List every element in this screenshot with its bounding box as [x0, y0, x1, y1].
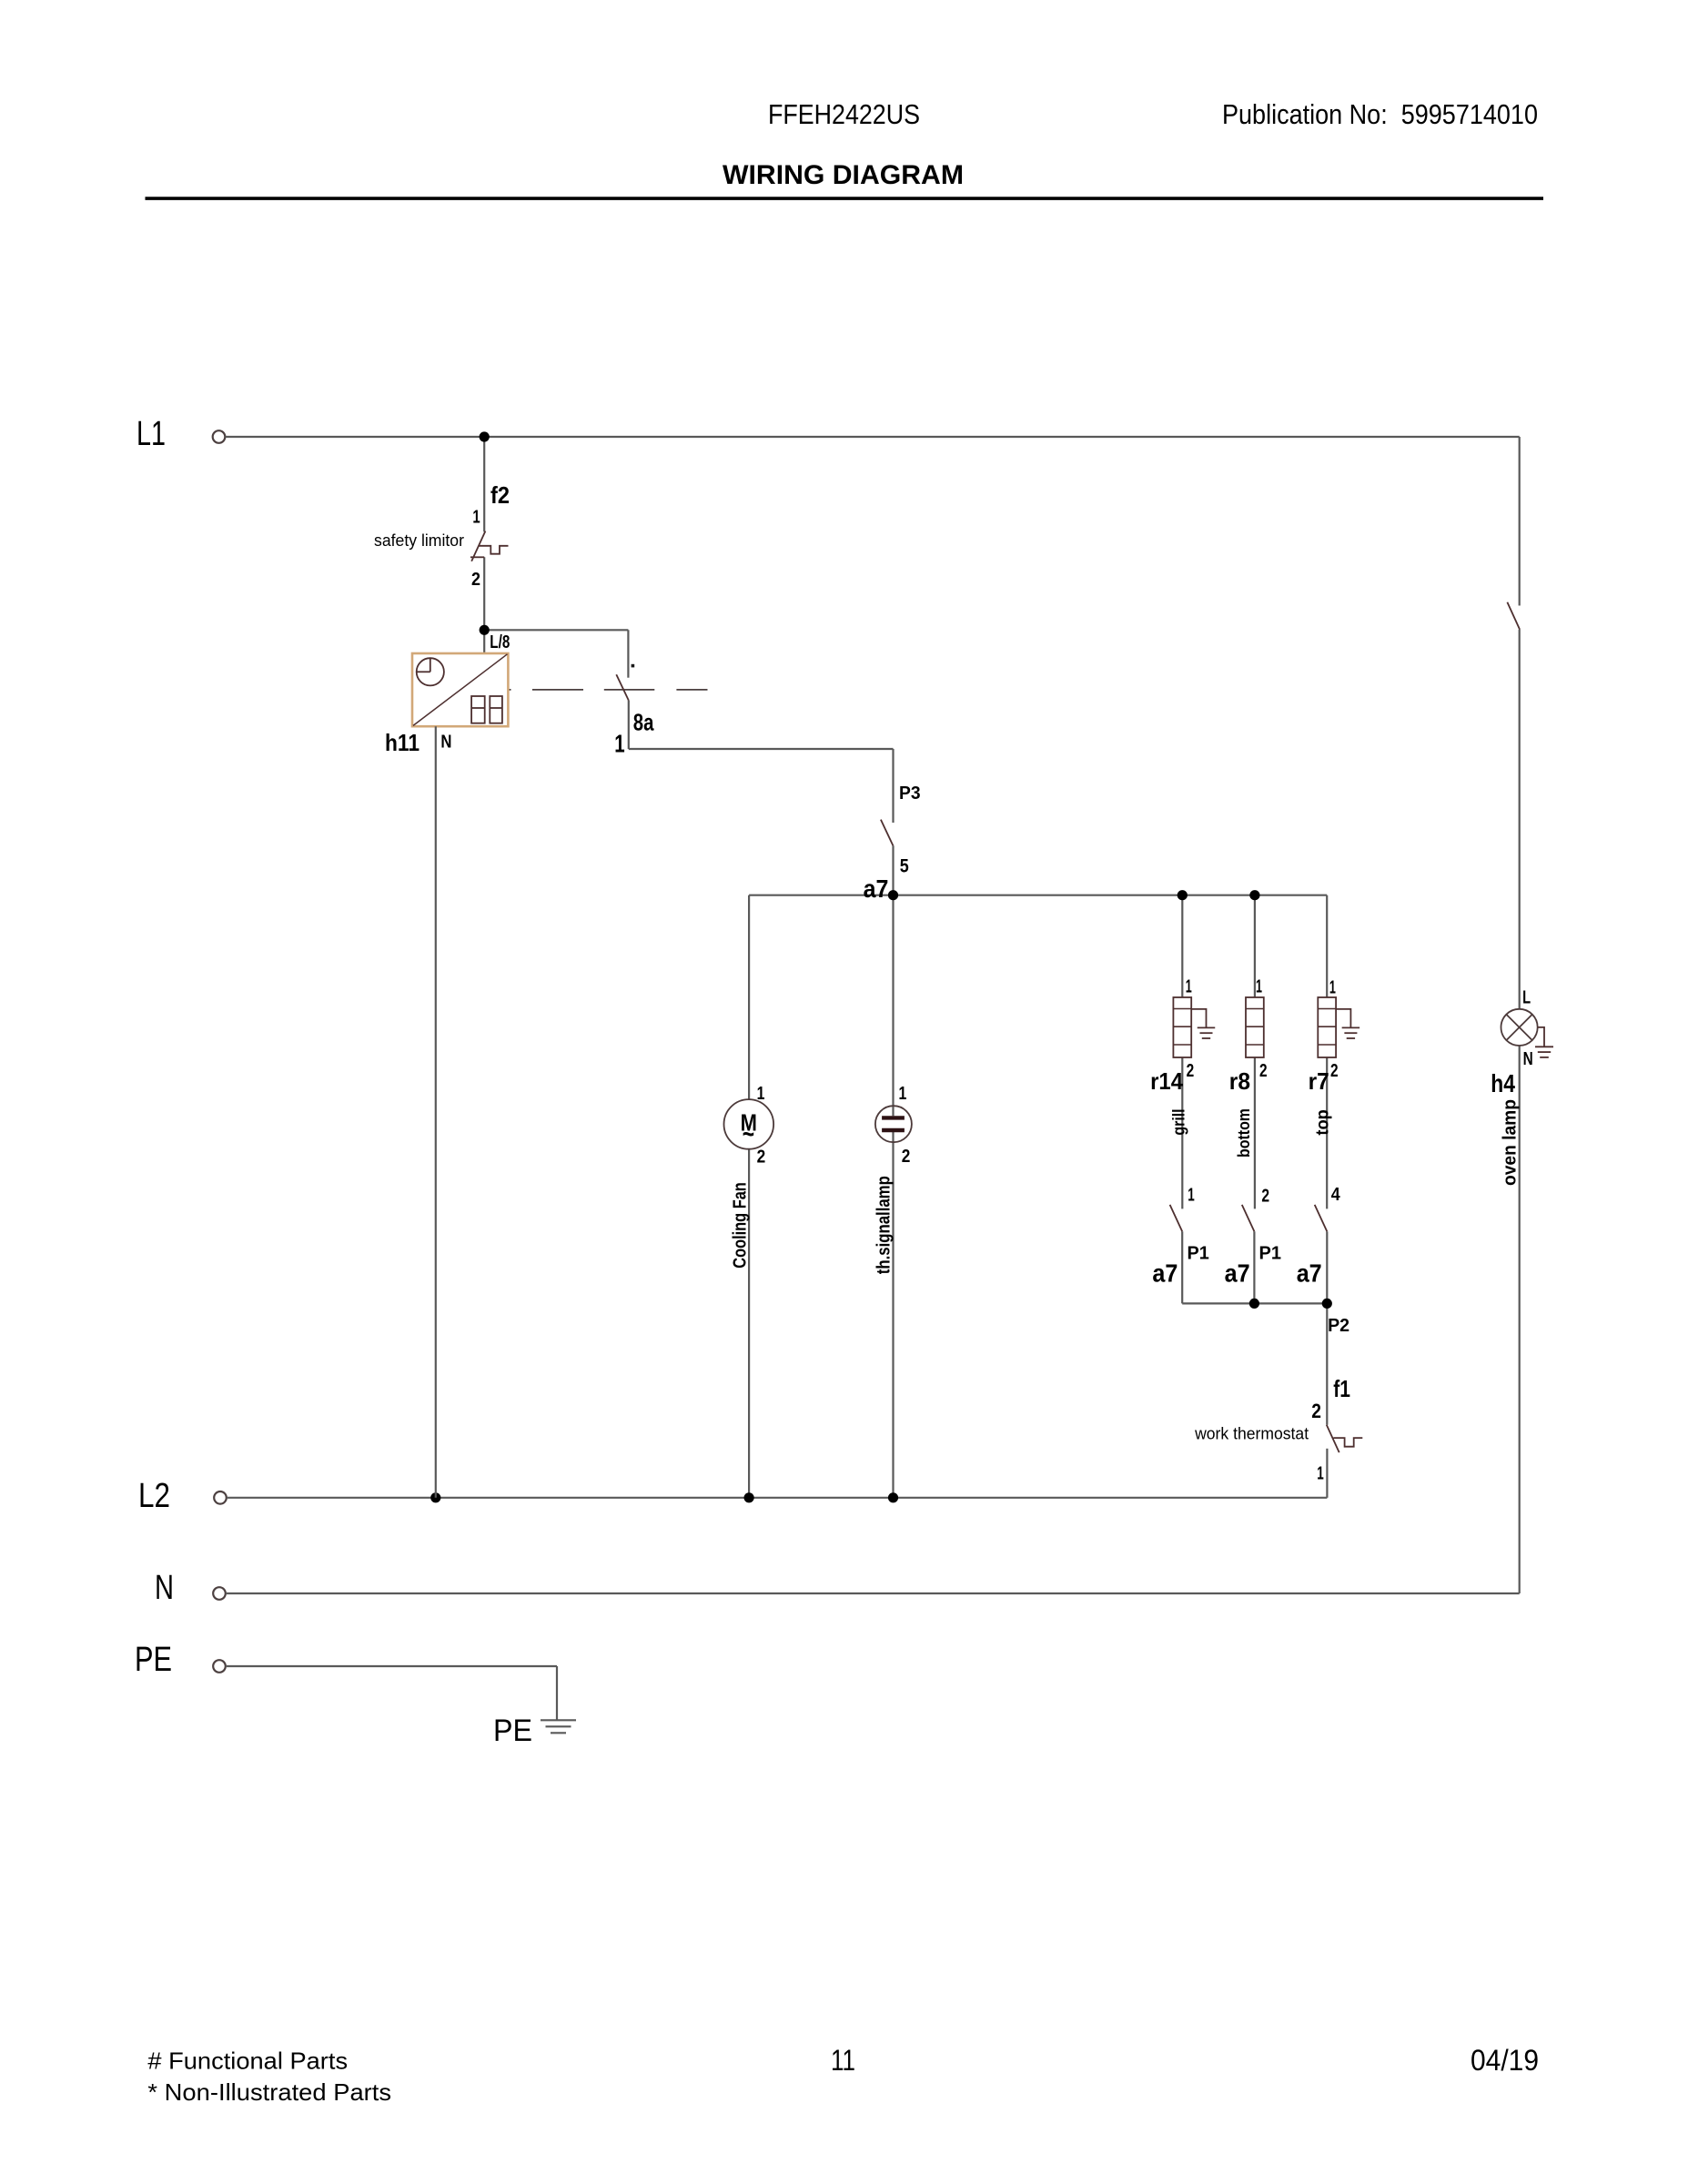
svg-text:1: 1 [472, 507, 480, 527]
svg-text:# Functional Parts: # Functional Parts [147, 2047, 348, 2075]
svg-text:oven lamp: oven lamp [1501, 1099, 1521, 1186]
svg-text:P1: P1 [1259, 1244, 1282, 1264]
svg-text:L2: L2 [138, 1477, 170, 1515]
svg-text:P1: P1 [1188, 1244, 1209, 1264]
svg-text:1: 1 [1329, 978, 1336, 998]
svg-text:a7: a7 [864, 875, 889, 903]
svg-text:grill: grill [1169, 1108, 1188, 1135]
svg-text:2: 2 [1330, 1061, 1339, 1081]
svg-text:1: 1 [1186, 976, 1192, 996]
svg-text:h11: h11 [385, 729, 419, 756]
svg-text:Publication No: 5995714010: Publication No: 5995714010 [1222, 98, 1538, 130]
svg-text:L1: L1 [136, 415, 166, 453]
svg-text:th.signallamp: th.signallamp [874, 1176, 895, 1274]
svg-text:L/8: L/8 [490, 632, 510, 652]
svg-text:a7: a7 [1152, 1259, 1178, 1287]
svg-text:2: 2 [1259, 1061, 1268, 1081]
svg-text:top: top [1314, 1109, 1333, 1135]
svg-text:P2: P2 [1328, 1316, 1349, 1336]
svg-text:2: 2 [1311, 1400, 1321, 1422]
svg-text:1: 1 [757, 1084, 765, 1104]
svg-text:2: 2 [757, 1148, 766, 1168]
svg-text:N: N [1523, 1049, 1533, 1069]
svg-text:2: 2 [471, 570, 480, 590]
svg-text:WIRING DIAGRAM: WIRING DIAGRAM [723, 160, 964, 190]
svg-text:1: 1 [899, 1084, 907, 1104]
svg-text:bottom: bottom [1235, 1108, 1253, 1158]
svg-text:P3: P3 [899, 784, 921, 804]
svg-text:safety limitor: safety limitor [374, 531, 464, 550]
svg-text:PE: PE [493, 1714, 532, 1748]
svg-text:r8: r8 [1229, 1067, 1250, 1095]
svg-text:L: L [1522, 987, 1531, 1007]
svg-text:04/19: 04/19 [1471, 2044, 1539, 2077]
svg-text:1: 1 [1188, 1186, 1195, 1206]
svg-text:2: 2 [1261, 1186, 1269, 1206]
svg-text:4: 4 [1331, 1185, 1341, 1205]
svg-text:f1: f1 [1333, 1375, 1350, 1402]
svg-text:1: 1 [1317, 1463, 1324, 1483]
svg-text:a7: a7 [1297, 1259, 1322, 1287]
svg-text:1: 1 [614, 730, 624, 758]
svg-text:h4: h4 [1491, 1069, 1515, 1097]
svg-text:r14: r14 [1150, 1067, 1183, 1095]
svg-text:2: 2 [902, 1147, 911, 1167]
svg-text:r7: r7 [1309, 1067, 1329, 1095]
svg-text:PE: PE [135, 1641, 172, 1679]
svg-text:1: 1 [1256, 976, 1262, 996]
svg-text:a7: a7 [1225, 1259, 1250, 1287]
svg-text:N: N [155, 1569, 174, 1607]
svg-text:2: 2 [1187, 1061, 1195, 1081]
svg-text:* Non-Illustrated Parts: * Non-Illustrated Parts [147, 2078, 391, 2106]
svg-text:N: N [440, 732, 451, 752]
svg-text:~: ~ [743, 1119, 754, 1149]
svg-text:5: 5 [900, 856, 909, 877]
svg-text:work thermostat: work thermostat [1194, 1425, 1309, 1443]
svg-text:FFEH2422US: FFEH2422US [768, 98, 920, 130]
svg-text:Cooling Fan: Cooling Fan [731, 1182, 751, 1269]
svg-text:f2: f2 [490, 481, 510, 509]
svg-text:11: 11 [831, 2044, 855, 2077]
svg-text:8a: 8a [633, 708, 654, 735]
